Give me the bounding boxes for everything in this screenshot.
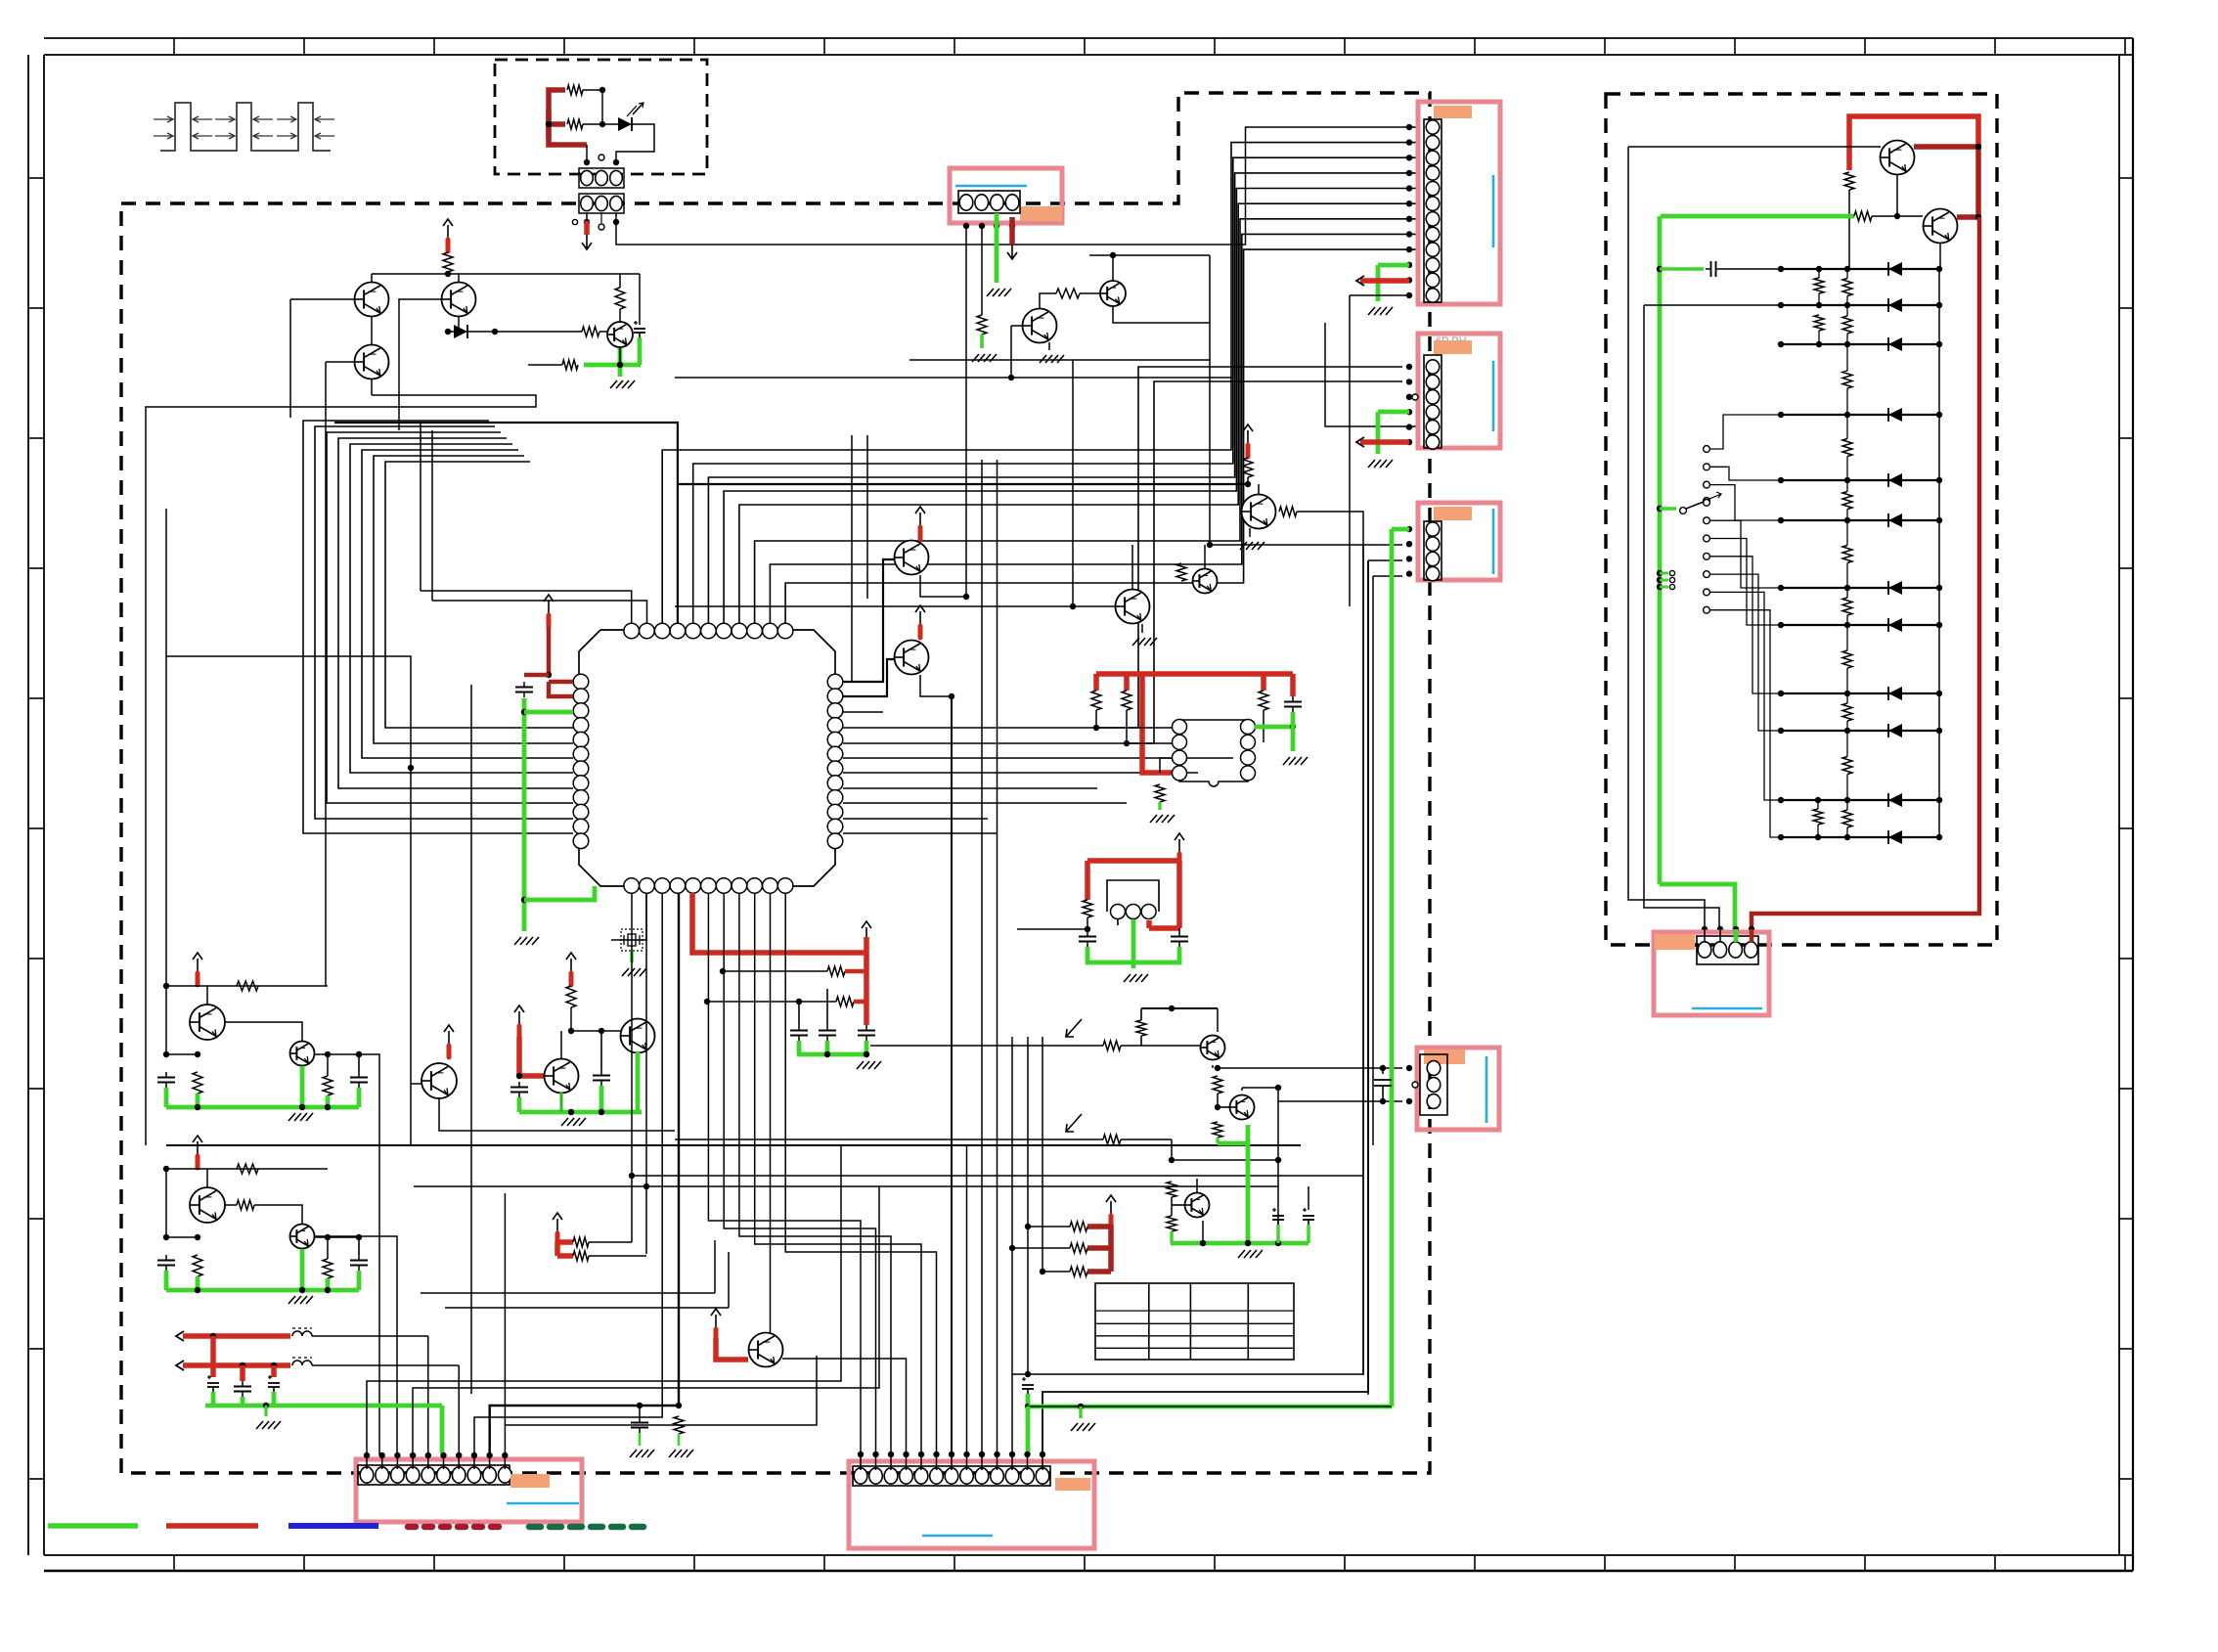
U2 pins right <box>1241 720 1256 735</box>
connector CN3 6-pin <box>1424 355 1442 448</box>
wire <box>165 1169 167 1237</box>
capacitor C2 <box>523 682 525 688</box>
power net red wire E-shape <box>549 90 587 145</box>
resistor R17 <box>1155 784 1165 802</box>
wire verticals right of IC <box>851 435 853 682</box>
wire <box>1028 1226 1070 1228</box>
wire Q2 base <box>399 299 442 430</box>
wire <box>312 1364 459 1366</box>
inductor L1 <box>292 1331 312 1336</box>
green rail <box>1658 216 1663 884</box>
arrow <box>1356 276 1364 286</box>
resistor <box>237 1164 258 1174</box>
connector CN5 shell <box>356 1459 582 1522</box>
wire long vertical x149 <box>146 395 536 1145</box>
resistor R36 <box>1854 211 1872 221</box>
label bar <box>1434 340 1472 354</box>
blue line <box>1492 361 1495 431</box>
resistor <box>323 1076 333 1095</box>
connector CN3 shell <box>1418 334 1500 448</box>
resistor R31 <box>1167 1216 1176 1231</box>
arrow down <box>1011 245 1013 258</box>
blue line <box>922 1535 993 1538</box>
power symbol <box>556 1219 558 1232</box>
ground <box>1124 974 1131 982</box>
blue label line <box>955 185 1027 188</box>
wire loop CN5 pin4 <box>413 1186 879 1455</box>
green bus <box>1171 1241 1309 1246</box>
wire CN6 pin11 and bus y1405 <box>1011 1037 1013 1453</box>
ground <box>288 1113 295 1121</box>
green stub <box>1216 1138 1219 1143</box>
wire block2 out <box>314 1236 397 1455</box>
green keyboard wire <box>1661 214 1854 219</box>
ground <box>630 1450 637 1457</box>
green bus <box>205 1404 442 1408</box>
component X2 resonator <box>1107 880 1159 912</box>
connector CN7 4-pin <box>1697 936 1758 964</box>
wire Q1 base <box>290 298 354 300</box>
connector CN6 shell <box>849 1461 1094 1548</box>
resistor R34 <box>1070 1267 1087 1276</box>
resistor <box>193 1255 202 1276</box>
wire <box>1171 1197 1173 1216</box>
wire <box>589 1241 632 1243</box>
label bar <box>1655 934 1695 950</box>
red RF out wire 2 <box>183 1362 290 1368</box>
wire <box>1207 542 1213 548</box>
green link <box>1026 1394 1031 1406</box>
red stubs <box>210 1336 216 1377</box>
wire <box>314 1236 359 1238</box>
ground <box>1141 624 1143 633</box>
three green contacts <box>1657 570 1663 576</box>
wire supply rail <box>372 273 640 275</box>
wire <box>870 1045 1103 1047</box>
resistor R19 row <box>723 970 827 972</box>
wire to CN3 <box>1368 559 1402 561</box>
arrow <box>176 1331 184 1341</box>
blue line <box>507 1502 579 1505</box>
resistor R3 <box>443 252 453 272</box>
label bar <box>1434 106 1472 118</box>
resistor R29 <box>1213 1122 1222 1138</box>
transistor Q3 <box>355 345 389 380</box>
resistor R26 <box>1136 1020 1146 1036</box>
wire <box>1131 545 1133 589</box>
wires CN3 <box>1406 364 1412 370</box>
capacitor C3 <box>1292 696 1294 702</box>
wire bus verticals <box>631 893 633 1242</box>
green wire CN4 pin1 <box>1392 527 1409 532</box>
wire CN5 pin3 <box>1278 1100 1402 1102</box>
wire base <box>411 1083 421 1085</box>
connector J2 3-pin <box>579 194 624 213</box>
wire bold pin4 net <box>334 423 678 623</box>
U1 top pins <box>624 623 640 639</box>
green wire CN2 pin10 <box>1378 263 1409 268</box>
transistor Q15 <box>749 1333 783 1367</box>
transistor Q11 <box>1193 569 1218 594</box>
blue line <box>1492 175 1495 247</box>
green net X2 <box>1131 919 1136 968</box>
transistor Q6 <box>1100 281 1126 306</box>
resistor R18 <box>1083 900 1092 917</box>
wire Q3 base <box>326 361 354 363</box>
wire bus <box>675 605 1115 607</box>
wire <box>601 90 603 124</box>
wire collector rail right <box>639 274 641 325</box>
wire emitter to CN6 pin4 <box>782 1359 907 1453</box>
dashed enclosure: keyboard board <box>1606 94 1997 945</box>
wire <box>586 213 588 219</box>
wire rail <box>166 1168 328 1170</box>
wire bundle from U1 top pins <box>421 591 632 623</box>
wiring table grid <box>1095 1283 1294 1360</box>
wire <box>1112 255 1114 281</box>
resistor R2 <box>567 119 583 129</box>
wire <box>611 893 646 940</box>
capacitor C5 <box>1178 931 1180 937</box>
wire Q6 emitter <box>1113 306 1210 323</box>
timing waveform diagram <box>160 103 331 151</box>
wire bus horizontals <box>632 1175 1363 1177</box>
wire <box>165 986 167 1054</box>
transistor Q9 <box>1242 495 1276 529</box>
ground <box>1071 1423 1078 1431</box>
arrow <box>1356 437 1364 447</box>
signal arrow in 1 <box>1066 1019 1082 1037</box>
transistor Q8 <box>895 641 929 675</box>
ground <box>1249 528 1251 537</box>
wire bus horizontal <box>166 1144 1301 1146</box>
wire riser CN5 pin10 tall <box>504 1193 506 1425</box>
ground <box>1368 307 1375 315</box>
resistor R37 <box>676 1403 682 1408</box>
connector CN4 shell <box>1418 503 1500 580</box>
connector CN7 shell <box>1654 932 1769 1015</box>
wire to main board <box>616 127 1420 245</box>
power symbol <box>1110 1201 1112 1215</box>
transistor Q18 <box>1185 1193 1210 1218</box>
crystal X1 <box>621 929 643 951</box>
red RF out wire 1 <box>183 1333 290 1339</box>
power symbol <box>448 1031 450 1045</box>
green net <box>519 1110 642 1115</box>
green wire <box>1218 1141 1248 1146</box>
label bar <box>1424 1049 1465 1064</box>
resistor R8 <box>1056 289 1080 298</box>
keyboard black wires to connector <box>1628 146 1881 148</box>
wires CN4 <box>1406 526 1412 532</box>
wire <box>616 124 654 162</box>
wire Q7 base <box>843 559 895 682</box>
resistor R20 row <box>707 1001 836 1003</box>
wires CN2 <box>1406 124 1412 130</box>
ground <box>1048 342 1050 350</box>
ground <box>622 968 629 976</box>
transistor small <box>290 1225 315 1249</box>
green wire CN1 pin3 <box>995 213 999 283</box>
green bus <box>166 1288 359 1293</box>
connector CN6 13-pin <box>853 1466 1050 1486</box>
red ring X2 <box>1087 858 1179 864</box>
node junction <box>445 271 451 277</box>
transistor Q19 <box>1881 141 1915 175</box>
resistor R35 <box>1844 172 1854 190</box>
keyboard row lines with diodes <box>1781 268 1939 270</box>
red wire CN3 pin6 <box>1360 439 1409 445</box>
transistor Q1 <box>371 274 373 283</box>
resistor R21 <box>566 986 576 1007</box>
ground <box>857 1061 864 1069</box>
blue line <box>1492 509 1495 574</box>
blue line <box>1486 1056 1488 1123</box>
wire bus <box>675 377 1233 379</box>
transistor Q13 <box>621 1019 655 1053</box>
capacitor C17 <box>1657 266 1663 272</box>
transistor Q2 <box>458 274 460 283</box>
resistor R14 <box>1091 691 1101 710</box>
transistor Q14 <box>421 1063 457 1098</box>
legend blue wire <box>288 1523 378 1529</box>
sheet border frame <box>44 37 2133 39</box>
connector J1 3-pin <box>579 168 624 188</box>
resistor <box>193 1072 202 1094</box>
wire CN2 pin12 <box>1350 294 1409 296</box>
red stub CN1 pin4 <box>1009 217 1015 245</box>
label bar <box>1020 206 1062 221</box>
wire rail <box>166 985 328 987</box>
switch S1 <box>1657 506 1663 512</box>
green stub <box>630 951 634 962</box>
power symbol <box>715 1315 717 1328</box>
wires CN8 <box>1406 1065 1412 1071</box>
wire <box>675 1139 1103 1140</box>
red wire Q12 base <box>516 1037 522 1076</box>
wire <box>951 696 953 1453</box>
ground <box>561 1118 568 1126</box>
resistor R27 <box>1213 1076 1222 1094</box>
power symbol <box>1178 839 1180 853</box>
signal arrow in 2 <box>1066 1114 1082 1132</box>
capacitor C7 <box>826 1025 828 1031</box>
power stub red <box>584 221 590 235</box>
wire <box>1939 243 1941 269</box>
green wire CN3 pin4 <box>1378 410 1409 415</box>
resistor chain column <box>1842 279 1852 296</box>
resistor R16 <box>1259 691 1268 710</box>
resistor R10 <box>1243 458 1253 477</box>
wire <box>560 1031 562 1059</box>
transistor Q12 <box>545 1059 579 1094</box>
wire bundle to IC left pins <box>303 421 573 833</box>
capacitor C4 <box>1087 931 1088 937</box>
wire <box>1212 1065 1214 1068</box>
wire <box>312 1335 428 1337</box>
transistor Q7 <box>895 541 929 575</box>
capacitor C12 <box>242 1381 244 1387</box>
power symbol <box>865 927 867 941</box>
green main ground wire <box>1390 529 1395 1406</box>
power symbol <box>518 1011 520 1025</box>
label bar <box>510 1474 550 1488</box>
photo LED D1 <box>618 117 632 131</box>
wire bus <box>909 359 1210 361</box>
power symbol block 1 <box>197 959 199 972</box>
wire Q8 base <box>843 659 895 696</box>
resistor R1 <box>567 85 583 95</box>
wire <box>1141 1007 1218 1009</box>
green stub <box>1170 1231 1173 1243</box>
resistor column 2 upper <box>1814 278 1824 293</box>
wire loop CN5 pin8 <box>474 893 662 1455</box>
transistor <box>206 1169 208 1187</box>
power symbol block 2 <box>197 1141 199 1155</box>
green wire U2 <box>1255 725 1293 730</box>
resistor column 2 lower <box>1813 809 1823 825</box>
legend green wire <box>48 1523 138 1529</box>
red wire CN2 pin11 <box>1360 278 1409 284</box>
microcontroller U1 body <box>579 630 835 886</box>
resistor R33 <box>1070 1243 1087 1253</box>
connector CN8 3-pin <box>1420 1054 1447 1115</box>
wire long left vertical <box>165 509 167 986</box>
ground <box>1368 460 1375 468</box>
legend dashed dark green <box>529 1524 648 1531</box>
ground <box>288 1296 295 1304</box>
green stub to ground <box>980 335 984 348</box>
CN6 pin dots <box>858 1451 864 1457</box>
resistor R23 <box>573 1251 589 1261</box>
power symbol AVCC <box>548 601 550 614</box>
resistor R32 <box>1070 1222 1087 1231</box>
capacitor C20 polarized <box>1022 1378 1026 1380</box>
wire <box>1241 1088 1243 1091</box>
transistor Q4 <box>607 322 633 347</box>
red stub <box>716 1338 748 1360</box>
connector CN1 shell <box>950 168 1062 223</box>
red keyboard power wire <box>1849 116 1978 170</box>
resistor R15 <box>1122 691 1131 710</box>
legend red wire <box>166 1523 258 1529</box>
wire Q5 base <box>1011 325 1023 327</box>
wire risers <box>951 696 953 1453</box>
wire loop CN5 pin1 <box>367 1145 841 1455</box>
capacitor C6 <box>798 1025 800 1031</box>
wire <box>1095 710 1097 728</box>
capacitor C1 polarized <box>634 322 638 324</box>
wire Q13 collector out <box>359 1054 379 1455</box>
U2 pins left <box>1173 720 1187 735</box>
resistor R30 <box>1167 1182 1176 1197</box>
keyboard switch contacts <box>1704 446 1710 453</box>
U1 left pins <box>573 674 589 690</box>
wire base link <box>225 1022 302 1041</box>
wire Q19 base <box>1896 174 1898 216</box>
wire long vertical x420 <box>166 656 411 1145</box>
wire <box>571 1030 621 1032</box>
power symbol <box>919 611 921 625</box>
capacitor <box>165 1255 167 1261</box>
wire CN6 pin13 and bus y1423 <box>1042 560 1368 1453</box>
connector CN8 shell <box>1417 1048 1499 1130</box>
resistor R12 <box>1176 563 1186 581</box>
wire <box>1196 1179 1198 1192</box>
red supply ring U2 <box>1096 671 1293 677</box>
transistor Q17 <box>1230 1095 1255 1120</box>
capacitor C11 polarized <box>207 1376 211 1378</box>
wire base link <box>225 1204 237 1206</box>
inductor L2 <box>292 1361 312 1365</box>
wire loop CN5 pin10 <box>505 1356 817 1455</box>
connector CN7 pin dots <box>1702 926 1708 932</box>
wire Q3 out <box>371 380 373 395</box>
capacitor <box>358 1072 360 1078</box>
power symbol <box>919 513 921 526</box>
ground <box>1283 757 1290 765</box>
wire filler center <box>421 1292 715 1294</box>
wire long vertical x482 <box>470 685 472 1394</box>
transistor Q5 <box>1023 309 1057 343</box>
arrow down <box>586 235 588 248</box>
capacitor <box>165 1072 167 1078</box>
power symbol VCC <box>447 225 449 239</box>
ground <box>264 1406 267 1416</box>
frame tick marks <box>173 38 175 55</box>
arrow <box>176 1361 184 1370</box>
wire Q4 emitter <box>619 347 621 365</box>
wire Q14 emitter out <box>439 1098 675 1131</box>
green net <box>797 1052 866 1057</box>
green emitter net <box>638 337 643 365</box>
keyboard right vertical <box>1938 269 1940 837</box>
resistor R22 <box>573 1237 589 1247</box>
green bus <box>166 1105 359 1110</box>
power symbol <box>570 959 572 972</box>
capacitor <box>358 1255 360 1261</box>
transistor small <box>290 1042 315 1066</box>
capacitor C16 polarized <box>1303 1209 1307 1211</box>
wire U2 pin feeds <box>1096 727 1173 729</box>
red power rail <box>692 893 866 953</box>
resistor R4 <box>495 331 582 333</box>
connector CN2 12-pin <box>1424 119 1442 302</box>
resistor <box>237 981 258 991</box>
wire collector <box>770 893 772 1333</box>
transistor Q20 <box>1924 209 1958 244</box>
connector CN1 4-pin <box>958 191 1020 213</box>
green stub <box>1158 802 1161 810</box>
transistor <box>206 986 208 1005</box>
IC U2 body <box>1179 720 1248 786</box>
resistor R6 <box>528 364 562 366</box>
wire Q5 collector <box>1040 293 1056 309</box>
wire Q2 emitter to diode node <box>458 317 460 332</box>
wire <box>314 1053 359 1055</box>
label bar <box>1055 1478 1090 1491</box>
dashed enclosure: main board outline <box>121 93 1430 1473</box>
label bar <box>1434 507 1472 520</box>
wire <box>1087 917 1088 929</box>
resistor R28 <box>1103 1135 1121 1144</box>
connector CN5 10-pin <box>358 1465 510 1485</box>
ground <box>669 1450 676 1457</box>
capacitor C19 <box>637 1403 643 1408</box>
capacitor C13 polarized <box>268 1376 272 1378</box>
wire Q8 emitter <box>920 675 952 696</box>
resistor R7 <box>977 315 987 335</box>
